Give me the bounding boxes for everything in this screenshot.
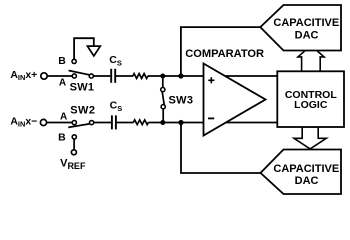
wire terminal- to SW2 bbox=[47, 122, 73, 124]
wire resistor to control logic (top rail, behind comparator) bbox=[148, 75, 278, 77]
node junction bottom-left bbox=[160, 120, 165, 125]
node VREF terminal bbox=[60, 139, 86, 171]
svg-text:A: A bbox=[59, 78, 66, 89]
svg-text:SW1: SW1 bbox=[70, 81, 95, 93]
svg-text:B: B bbox=[58, 55, 66, 67]
node junction bottom-right bbox=[178, 120, 183, 125]
svg-text:SW2: SW2 bbox=[70, 105, 95, 117]
node junction top-left bbox=[160, 74, 165, 79]
arrow up (control logic to top DAC) bbox=[298, 46, 324, 72]
resistor (top) bbox=[133, 74, 148, 79]
wire terminal+ to SW1 bbox=[47, 75, 72, 77]
svg-text:B: B bbox=[58, 131, 66, 143]
control logic U2 bbox=[277, 71, 344, 127]
wire CS to resistor (top) bbox=[116, 75, 133, 77]
svg-text:CAPACITIVE: CAPACITIVE bbox=[273, 17, 339, 29]
capacitor CS (bottom) bbox=[110, 100, 123, 130]
resistor (bottom) bbox=[134, 120, 149, 125]
switch SW1 bbox=[58, 55, 94, 93]
capacitive DAC top bbox=[260, 5, 341, 51]
svg-text:SW3: SW3 bbox=[169, 94, 194, 106]
svg-text:DAC: DAC bbox=[295, 175, 319, 187]
node AINx+ terminal bbox=[10, 70, 47, 82]
svg-text:DAC: DAC bbox=[295, 30, 319, 42]
wire feedback to top DAC bbox=[181, 27, 261, 76]
wire CS to resistor (bottom) bbox=[117, 122, 134, 124]
wire feedback to bottom DAC bbox=[181, 123, 261, 174]
capacitor CS (top) bbox=[109, 54, 122, 83]
svg-text:A: A bbox=[60, 112, 67, 123]
node AINx- terminal bbox=[10, 116, 46, 128]
switch SW3 bbox=[161, 76, 194, 123]
switch SW2 bbox=[58, 105, 95, 144]
svg-text:CAPACITIVE: CAPACITIVE bbox=[273, 163, 339, 175]
wire SW2 to CS bottom bbox=[94, 122, 111, 124]
op-amp comparator U1 bbox=[185, 48, 265, 136]
wire resistor to control logic (bottom rail, behind comparator) bbox=[148, 122, 277, 124]
wire SW1 to CS top bbox=[93, 75, 110, 77]
capacitive DAC bottom bbox=[261, 150, 342, 195]
svg-text:LOGIC: LOGIC bbox=[294, 99, 328, 111]
ground bbox=[74, 38, 100, 59]
arrow down (control logic to bottom DAC) bbox=[294, 127, 326, 149]
node junction top-right bbox=[178, 73, 183, 78]
svg-text:COMPARATOR: COMPARATOR bbox=[185, 48, 264, 60]
